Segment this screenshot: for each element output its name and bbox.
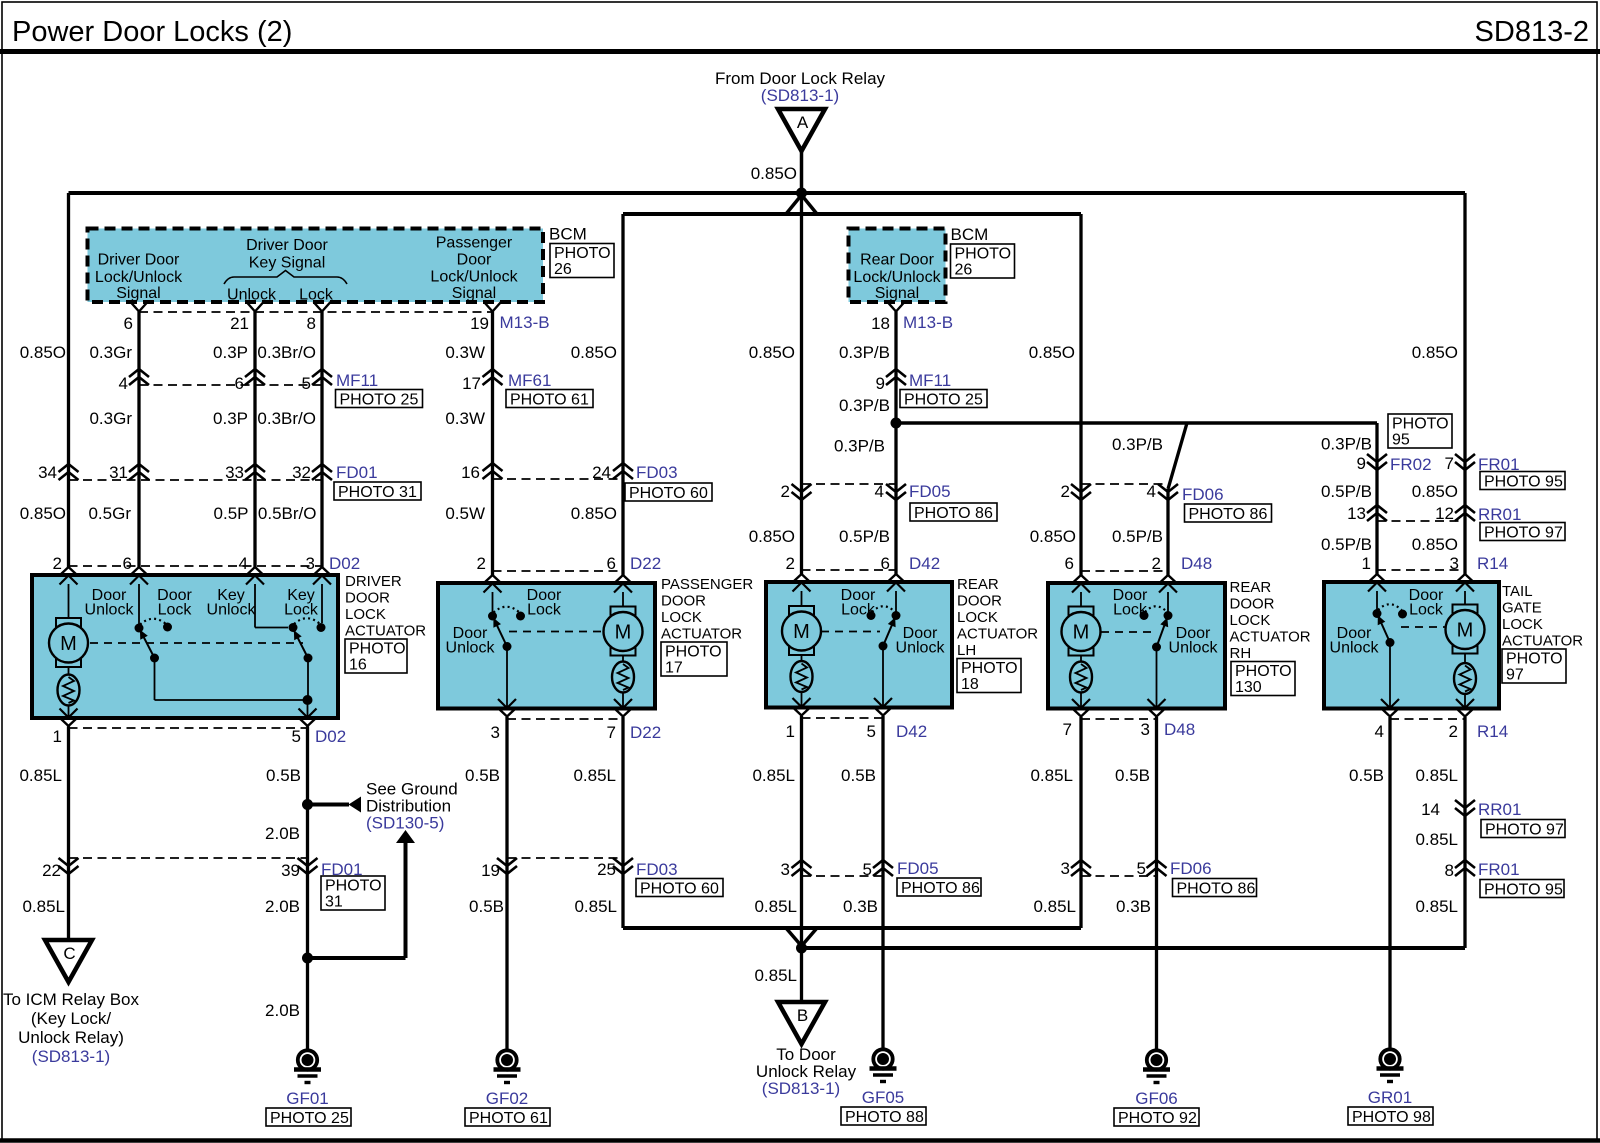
wire col x=1081 rearRH pin7 down: [1079, 717, 1082, 928]
wire label 0.85L mid-right: [1415, 830, 1458, 849]
pin number 3 D22: [491, 723, 500, 742]
photo box PHOTO 31 (FD01 pin39): [321, 876, 385, 911]
svg-text:0.5B: 0.5B: [266, 766, 301, 785]
pin D48-7 exit: [1072, 699, 1090, 717]
svg-text:Unlock: Unlock: [1330, 640, 1380, 657]
svg-text:7: 7: [1445, 454, 1454, 473]
svg-text:GF02: GF02: [486, 1089, 529, 1108]
switch contact key-lock-right driver: [317, 623, 326, 632]
svg-text:D02: D02: [315, 727, 346, 746]
connector pin 22 (inline): [59, 858, 79, 874]
pin number 19 FD03: [481, 861, 500, 880]
rear door lock actuator RH box: [1048, 583, 1225, 709]
svg-text:0.5P/B: 0.5P/B: [1112, 527, 1163, 546]
wire col x=1156.5 rearRH pin3 down (to GF06): [1155, 717, 1158, 1050]
ground GF05: [841, 1049, 926, 1126]
pin number 16 FD03: [461, 463, 480, 482]
svg-text:D48: D48: [1181, 554, 1212, 573]
driver door lock actuator box: [32, 575, 338, 718]
wire label 0.5P/B rowC x1163y542: [1112, 527, 1163, 546]
pin number 18 (M13-B): [871, 314, 890, 333]
svg-text:12: 12: [1435, 504, 1454, 523]
svg-text:0.85O: 0.85O: [571, 504, 617, 523]
svg-text:2: 2: [1152, 554, 1161, 573]
pin number 4 R14: [1375, 722, 1384, 741]
svg-text:0.85L: 0.85L: [1033, 897, 1076, 916]
photo box PHOTO 60 (FD03 bottom): [636, 879, 723, 898]
pin D02-3 entry: [313, 567, 331, 585]
photo box PHOTO 97 (tail): [1502, 649, 1566, 684]
photo box PHOTO 26 (left BCM): [550, 244, 614, 279]
svg-text:Lock: Lock: [158, 602, 193, 619]
svg-text:Rear Door: Rear Door: [860, 252, 934, 269]
wire label 0.85L bottom row1 x616: [573, 766, 616, 785]
wire label 0.85O rowA x795: [749, 343, 795, 362]
BCM pin 18 connector M13-B: [888, 302, 905, 312]
svg-text:0.85L: 0.85L: [752, 766, 795, 785]
connector FD06 pin 4: [1158, 484, 1178, 500]
dashed pin line D42 bottom: [802, 717, 884, 719]
connector FR01 pin 8: [1455, 860, 1475, 876]
bottom border thick line: [0, 1138, 1600, 1143]
pin D48-2 entry: [1159, 575, 1177, 593]
svg-text:SD813-2: SD813-2: [1475, 16, 1589, 48]
pin D22-2 entry: [484, 575, 502, 593]
node bottom bus dot driver: [303, 695, 313, 705]
svg-text:5: 5: [1137, 859, 1146, 878]
svg-text:18: 18: [871, 314, 890, 333]
label Driver Door Key Signal: [246, 237, 328, 272]
svg-text:2: 2: [53, 554, 62, 573]
switch contact left pass: [488, 612, 497, 621]
resistor (PTC) tail: [1454, 663, 1476, 694]
wire 0.3Gr col x=139: [137, 312, 140, 568]
wire label 0.3P/B rowB x890: [839, 396, 890, 415]
wire col x=507 passenger pin3 down: [505, 717, 508, 1050]
wire 0.85O col x=801.5 (junction to rear LH): [800, 193, 803, 574]
connector MF11 pin 4: [129, 369, 149, 385]
connector FD01 pin 31: [129, 464, 149, 480]
connector FD06 pin 2: [1071, 484, 1091, 500]
svg-text:RH: RH: [1230, 645, 1252, 662]
dashed link FD05 3-5: [802, 875, 884, 877]
svg-text:21: 21: [230, 314, 249, 333]
svg-text:D02: D02: [329, 554, 360, 573]
pin D48-6 entry: [1072, 575, 1090, 593]
svg-text:PHOTO 97: PHOTO 97: [1484, 525, 1563, 542]
switch arm rrh: [1152, 616, 1168, 652]
svg-text:D22: D22: [630, 723, 661, 742]
wire 0.3Br/O col x=322: [320, 312, 323, 568]
pin D02-2 entry: [60, 567, 78, 585]
wire label 0.85L bottom row2 x1458: [1415, 897, 1458, 916]
wire label 0.85O rowA x1458: [1412, 343, 1458, 362]
svg-text:PHOTO: PHOTO: [1235, 663, 1292, 680]
svg-text:PHOTO 25: PHOTO 25: [340, 392, 419, 409]
svg-text:B: B: [797, 1006, 808, 1025]
pin R14-3 entry: [1456, 574, 1474, 592]
svg-text:0.85L: 0.85L: [574, 897, 617, 916]
svg-text:95: 95: [1392, 432, 1410, 449]
label Unlock: [227, 287, 277, 304]
svg-text:RR01: RR01: [1478, 800, 1521, 819]
wire label 0.85L bottom row1 x1073: [1030, 766, 1073, 785]
svg-text:Signal: Signal: [875, 285, 919, 302]
photo box PHOTO 95 (FR01 top): [1480, 472, 1565, 491]
svg-text:(Key Lock/: (Key Lock/: [31, 1009, 112, 1028]
svg-text:0.85L: 0.85L: [1415, 897, 1458, 916]
connector FR01 pin 7: [1455, 454, 1475, 470]
pin number 2 D22: [477, 554, 486, 573]
label BCM (left): [549, 225, 587, 244]
pin number 3 D48: [1141, 720, 1150, 739]
svg-text:ACTUATOR: ACTUATOR: [661, 626, 742, 643]
svg-text:PHOTO: PHOTO: [665, 644, 722, 661]
wire inside driver pin2 to motor: [68, 584, 70, 618]
dotted travel arc driver right: [294, 618, 320, 624]
passenger door lock actuator box: [438, 583, 655, 709]
svg-text:MF11: MF11: [336, 371, 378, 390]
svg-text:4: 4: [119, 374, 128, 393]
svg-text:25: 25: [597, 860, 616, 879]
BCM connector box (rear door signal): [849, 229, 946, 303]
label Rear Door Lock/Unlock Signal: [853, 252, 941, 303]
pin D02-1 exit: [60, 709, 78, 727]
label Door Unlock (rear RH): [1169, 625, 1219, 657]
dotted travel arc rrh: [1145, 606, 1167, 612]
pin number 9 FR02: [1357, 454, 1366, 473]
switch contact door-lock driver: [163, 623, 172, 632]
svg-text:5: 5: [302, 374, 311, 393]
connector FD03 pin 25: [613, 858, 633, 874]
svg-text:0.5P/B: 0.5P/B: [1321, 535, 1372, 554]
connector FD05 pin 4: [886, 484, 906, 500]
wire ground-dist return: [308, 842, 406, 958]
pin number 21 (M13-B): [230, 314, 249, 333]
connector FD01 pin 33: [245, 464, 265, 480]
svg-text:2.0B: 2.0B: [265, 824, 300, 843]
wire col x=801.5 rearLH pin1 down: [800, 716, 803, 948]
wire bus to pin5 driver: [307, 700, 309, 717]
svg-text:2: 2: [786, 554, 795, 573]
wire bottom bus driver: [155, 699, 308, 701]
pin D48-3 exit: [1148, 699, 1166, 717]
label 0.85O below A: [751, 164, 797, 183]
svg-text:2: 2: [477, 554, 486, 573]
wire label 0.85L bottom row2 x617: [574, 897, 617, 916]
wire col x=883 rearLH pin5 down (to GF05): [881, 716, 884, 1049]
label (SD813-1) at C: [32, 1047, 110, 1066]
svg-text:LOCK: LOCK: [1230, 612, 1271, 629]
connector name RR01: [1478, 505, 1521, 524]
svg-text:ACTUATOR: ACTUATOR: [345, 623, 426, 640]
connector FD01 pin 32: [312, 464, 332, 480]
connector FD05 pin 3: [792, 860, 812, 876]
wire label 0.85O rowC x66y519: [20, 504, 66, 523]
wire label 0.5W rowC x485y519: [445, 504, 485, 523]
BCM pin 19 connector M13-B: [484, 302, 501, 312]
wire label 0.3P/B below junction: [834, 437, 885, 456]
pin number 33 FD01: [225, 463, 244, 482]
connector name FD01: [336, 463, 378, 482]
svg-text:Driver Door: Driver Door: [246, 237, 328, 254]
svg-text:FD05: FD05: [897, 859, 939, 878]
wire label 2.0B (lower): [265, 1001, 300, 1020]
svg-text:BCM: BCM: [951, 225, 989, 244]
pin D22-7 exit: [614, 699, 632, 717]
svg-text:FD06: FD06: [1170, 859, 1212, 878]
dashed pin line D02 bottom: [69, 727, 308, 729]
wire pin2 to motor rlh: [801, 591, 803, 606]
wire label 0.85L bottom row2 x1076: [1033, 897, 1076, 916]
svg-text:R14: R14: [1477, 554, 1508, 573]
connector FD03 pin 24: [613, 463, 633, 479]
svg-text:19: 19: [470, 314, 489, 333]
pin number 39 FD01: [281, 861, 300, 880]
connector RR01 pin 14: [1455, 800, 1475, 816]
svg-text:M: M: [615, 622, 632, 644]
wire label 0.3B bottom row2 x878: [843, 897, 878, 916]
pin D02-4 entry: [246, 567, 264, 585]
svg-text:31: 31: [325, 894, 343, 911]
svg-text:0.85L: 0.85L: [754, 897, 797, 916]
svg-text:M13-B: M13-B: [903, 313, 953, 332]
svg-text:3: 3: [1141, 720, 1150, 739]
ground GF02: [465, 1050, 550, 1127]
svg-text:0.85L: 0.85L: [573, 766, 616, 785]
svg-text:Lock: Lock: [284, 602, 319, 619]
node junction x=896 y=423: [891, 418, 902, 429]
motor M rear RH: [1062, 607, 1101, 656]
svg-text:19: 19: [481, 861, 500, 880]
svg-text:PHOTO 86: PHOTO 86: [1189, 506, 1268, 523]
svg-text:PHOTO: PHOTO: [955, 246, 1012, 263]
svg-text:6: 6: [123, 554, 132, 573]
svg-text:6: 6: [881, 554, 890, 573]
svg-text:PHOTO 61: PHOTO 61: [510, 392, 589, 409]
wire pin2 to contact pass: [492, 592, 494, 612]
wire label 0.5B bottom row1 x1150: [1115, 766, 1150, 785]
svg-text:(SD813-1): (SD813-1): [761, 86, 839, 105]
svg-text:FD01: FD01: [336, 463, 378, 482]
node junction B: [796, 943, 807, 954]
svg-text:D22: D22: [630, 554, 661, 573]
ground GF06: [1114, 1050, 1199, 1127]
svg-text:FD05: FD05: [909, 482, 951, 501]
photo box PHOTO 18: [957, 659, 1021, 694]
svg-text:PHOTO 88: PHOTO 88: [845, 1109, 924, 1126]
wire label 0.85O rowC x795y542: [749, 527, 795, 546]
svg-text:PHOTO: PHOTO: [325, 878, 382, 895]
wire label 0.3W rowB x485: [445, 409, 485, 428]
svg-text:PHOTO: PHOTO: [961, 660, 1018, 677]
pin number 3 R14: [1450, 554, 1459, 573]
pin number 7 D22: [607, 723, 616, 742]
svg-text:GR01: GR01: [1368, 1088, 1412, 1107]
label Door Lock (rear RH): [1113, 587, 1148, 619]
wire arm to pin5 rlh: [882, 646, 884, 707]
wire label 0.5P/B rowC x1372y497: [1321, 482, 1372, 501]
svg-text:0.3W: 0.3W: [445, 343, 485, 362]
connector RR01 pin 12: [1455, 505, 1475, 521]
wire label 0.85L bottom row1 x62: [19, 766, 62, 785]
dashed link 22-39: [69, 857, 308, 859]
switch contact left tail: [1373, 609, 1382, 618]
wire bottom Y-diagonal left: [786, 928, 802, 946]
svg-text:6: 6: [235, 374, 244, 393]
pin number 2 D48: [1152, 554, 1161, 573]
dashed link FD05 2-4: [802, 483, 897, 485]
svg-text:PHOTO: PHOTO: [1506, 651, 1563, 668]
svg-text:FD03: FD03: [636, 463, 678, 482]
dashed link RR01 13-12: [1377, 520, 1465, 522]
wire Y-diagonal left: [786, 195, 802, 214]
svg-text:2.0B: 2.0B: [265, 1001, 300, 1020]
wire label 0.85L above B: [754, 966, 797, 985]
wire label 0.5P rowC x248.5y519: [214, 504, 249, 523]
connector name FR01 (pin7): [1478, 455, 1520, 474]
svg-text:3: 3: [781, 860, 790, 879]
motor M passenger: [604, 607, 643, 656]
dashed pin line M13-B: [139, 311, 493, 313]
svg-text:D42: D42: [896, 722, 927, 741]
switch contact right rrh: [1164, 611, 1173, 620]
svg-text:0.5B: 0.5B: [465, 766, 500, 785]
pin R14-4 exit: [1381, 699, 1399, 717]
pin number 5 FD05: [863, 860, 872, 879]
switch arm rlh: [879, 616, 897, 651]
connector name FD03: [636, 463, 678, 482]
wire pin6 to motor pass: [622, 592, 624, 607]
pin number 5 FD06: [1137, 859, 1146, 878]
title Power Door Locks (2): [12, 16, 292, 48]
wire branch y=423 to FR02: [896, 421, 1377, 425]
label DRIVER DOOR LOCK ACTUATOR: [345, 573, 426, 640]
pin number 12 RR01: [1435, 504, 1454, 523]
wire label 0.5B bottom row1 x500: [465, 766, 500, 785]
label From Door Lock Relay: [715, 69, 886, 88]
connector FD05 pin 2: [792, 484, 812, 500]
svg-text:2: 2: [781, 482, 790, 501]
wire 0.85O col x=623 (sub-bus to passenger): [621, 214, 624, 575]
connector name MF11: [336, 371, 378, 390]
wire bottom Y-diagonal right: [802, 928, 818, 946]
photo box PHOTO 25 (MF11 pin9): [900, 390, 987, 409]
tail gate lock actuator box: [1324, 582, 1499, 709]
pin number 13 RR01: [1347, 504, 1366, 523]
wire resistor to pin2 tail: [1464, 694, 1466, 707]
connector MF11 pin 5: [312, 369, 332, 385]
svg-text:0.85O: 0.85O: [20, 343, 66, 362]
wire col x=1465 tail pin2 down: [1463, 717, 1466, 948]
svg-text:0.5B: 0.5B: [841, 766, 876, 785]
svg-text:R14: R14: [1477, 722, 1508, 741]
pin D42-5 exit: [874, 698, 892, 716]
pin number 3 FD06: [1061, 859, 1070, 878]
svg-text:0.85L: 0.85L: [754, 966, 797, 985]
wire arm to pin3 pass: [506, 647, 508, 708]
ground-dist return arrowhead up: [396, 830, 415, 843]
svg-text:BCM: BCM: [549, 225, 587, 244]
svg-text:16: 16: [461, 463, 480, 482]
svg-text:0.5Gr: 0.5Gr: [88, 504, 131, 523]
svg-text:31: 31: [109, 463, 128, 482]
wire motor-resistor rlh: [801, 656, 803, 662]
svg-text:3: 3: [491, 723, 500, 742]
svg-text:A: A: [797, 113, 809, 132]
photo box PHOTO 86 (FD06 top): [1185, 504, 1272, 523]
connector name D02 bottom: [315, 727, 346, 746]
resistor (PTC) rear LH: [791, 661, 813, 692]
label To Door Unlock Relay: [756, 1045, 857, 1081]
ground GF01: [266, 1050, 351, 1127]
svg-text:PHOTO 86: PHOTO 86: [914, 505, 993, 522]
connector name FD05: [909, 482, 951, 501]
svg-text:0.3Br/O: 0.3Br/O: [257, 409, 316, 428]
wire label 0.85O rowA x66: [20, 343, 66, 362]
pin number 2 FD06: [1061, 482, 1070, 501]
dashed link FD01 row: [69, 479, 323, 481]
svg-text:1: 1: [786, 722, 795, 741]
wire label 0.3B bottom row2 x1151: [1116, 897, 1151, 916]
wire label 0.5P/B rowC x1372y550: [1321, 535, 1372, 554]
svg-text:LH: LH: [957, 642, 976, 659]
svg-text:Unlock: Unlock: [896, 640, 946, 657]
svg-text:TAIL: TAIL: [1502, 583, 1533, 600]
svg-text:0.3P/B: 0.3P/B: [839, 396, 890, 415]
svg-text:5: 5: [292, 727, 301, 746]
svg-text:Key Signal: Key Signal: [249, 255, 326, 272]
title divider line: [0, 49, 1600, 54]
svg-text:0.5Br/O: 0.5Br/O: [258, 504, 317, 523]
svg-text:GF01: GF01: [286, 1089, 329, 1108]
svg-text:PHOTO 95: PHOTO 95: [1484, 474, 1563, 491]
wire arm to pin3 rrh: [1156, 647, 1158, 708]
svg-text:Lock/Unlock: Lock/Unlock: [853, 269, 941, 286]
wire arm2 to bottom bus driver: [307, 658, 309, 700]
connector MF11 pin 9: [886, 369, 906, 385]
wire label 0.85O rowC x1076y542: [1030, 527, 1076, 546]
wire label 0.85L bottom row1 x1458: [1415, 766, 1458, 785]
svg-text:26: 26: [554, 261, 572, 278]
label Door Lock (rear LH): [841, 587, 876, 619]
dashed pin line D22 bottom: [507, 718, 623, 720]
pin number 6 D22: [607, 554, 616, 573]
pin D42-2 entry: [793, 574, 811, 592]
label To ICM Relay Box: [3, 990, 140, 1047]
svg-text:Driver Door: Driver Door: [98, 252, 180, 269]
node junction A on bus: [796, 188, 807, 199]
connector FD03 pin 16: [483, 463, 503, 479]
svg-text:0.3B: 0.3B: [843, 897, 878, 916]
svg-text:6: 6: [1065, 554, 1074, 573]
svg-text:0.85L: 0.85L: [22, 897, 65, 916]
dashed pin line R14 top: [1377, 569, 1465, 571]
svg-text:2: 2: [1449, 722, 1458, 741]
switch contact key-lock-left driver: [289, 623, 298, 632]
svg-text:Unlock: Unlock: [446, 640, 496, 657]
wire pin1 to contact tail: [1376, 591, 1378, 610]
svg-text:Unlock: Unlock: [1169, 640, 1219, 657]
label BCM (right): [951, 225, 989, 244]
svg-text:Passenger: Passenger: [436, 235, 513, 252]
svg-text:0.85O: 0.85O: [20, 504, 66, 523]
connector name R14 top: [1477, 554, 1508, 573]
motor M tail: [1446, 605, 1485, 654]
connector name FD05 (bottom): [897, 859, 939, 878]
pin number 6 (M13-B): [124, 314, 133, 333]
connector FD03 pin 19: [497, 858, 517, 874]
